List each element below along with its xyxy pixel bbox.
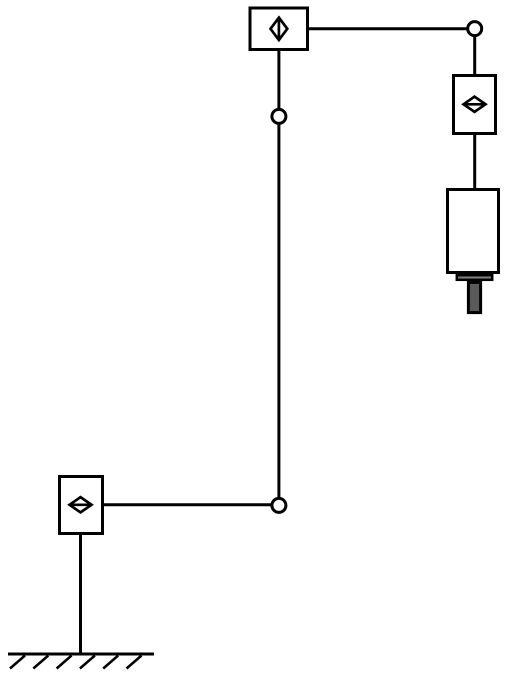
source U2 (right, box with horizontal diamond) <box>454 76 496 134</box>
wire: mid node down to bottom node <box>277 123 280 499</box>
wire: top-right node down to right source box <box>473 35 476 77</box>
wire: left source box down to ground <box>79 533 82 654</box>
wire: bottom node left to left source box <box>102 503 272 506</box>
source U3 (left, box with horizontal diamond) <box>60 477 103 534</box>
mass element M1 stem <box>468 282 480 312</box>
mass element M1 (rectangle body) <box>448 190 499 273</box>
mass element M1 collar <box>457 275 492 280</box>
source U1 (top, box with vertical diamond) <box>250 8 308 50</box>
wire: right source box down to mass element <box>473 133 476 191</box>
node N1 (top-right circle) <box>468 22 482 36</box>
wire: top box down to mid node <box>277 49 280 110</box>
node N2 (mid circle) <box>272 109 286 123</box>
ground (hatched reference) <box>8 654 154 669</box>
node N3 (bottom circle) <box>272 498 286 512</box>
wire: top box to top-right node <box>307 27 468 30</box>
